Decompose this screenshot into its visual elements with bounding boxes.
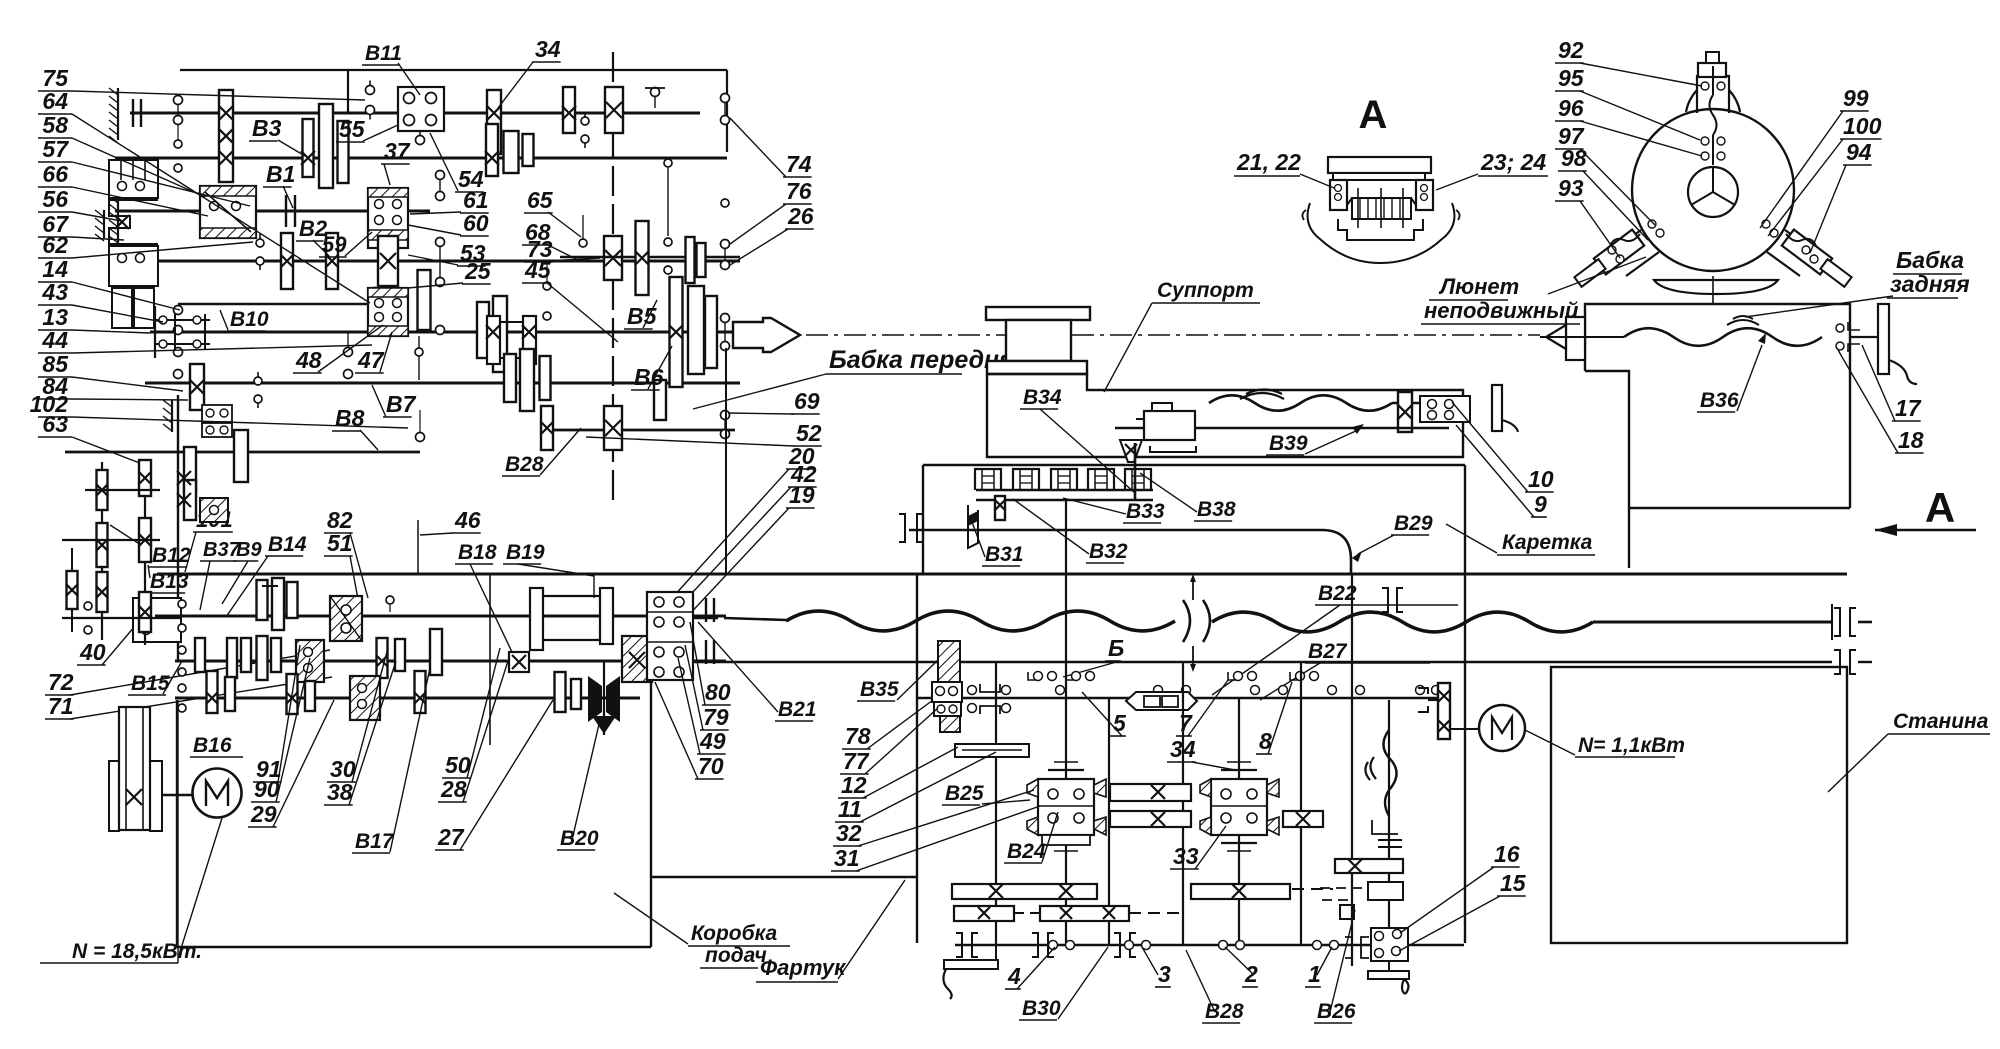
right arm bearings	[1762, 220, 1770, 228]
apron vertical shafts	[995, 662, 997, 945]
B24 base plate	[1042, 835, 1090, 845]
bearing x580 shaft2	[579, 239, 587, 247]
svg-text:70: 70	[698, 753, 724, 779]
hatched block B15	[296, 640, 324, 682]
svg-text:Станина: Станина	[1893, 710, 1989, 733]
gear shaft IV x332	[326, 233, 338, 289]
clamp rack strip	[1347, 198, 1416, 205]
33-34 cap top	[1221, 769, 1257, 771]
rack and pinion bar	[955, 744, 1029, 757]
toolpost stem	[1006, 320, 1071, 361]
svg-text:N= 1,1кВт: N= 1,1кВт	[1578, 734, 1685, 757]
bearing circles B16 left	[178, 684, 186, 692]
clamp left jaw	[1330, 180, 1347, 210]
rod coupling	[705, 640, 707, 664]
steady rest right arm	[1785, 230, 1818, 254]
svg-text:В19: В19	[506, 541, 545, 564]
B29 shaft break	[1383, 730, 1396, 816]
svg-text:37: 37	[384, 138, 411, 164]
leadscrew wavy left	[786, 611, 1175, 631]
B24 cap top	[1048, 769, 1084, 771]
svg-text:В16: В16	[193, 734, 232, 757]
bevel gear cluster dark	[588, 676, 602, 722]
small box x40	[133, 598, 181, 642]
gear on vertical shaft top	[605, 87, 623, 133]
svg-text:19: 19	[789, 482, 815, 508]
bed top line	[157, 573, 1847, 576]
svg-text:В14: В14	[268, 533, 307, 556]
gear shaft IV x287	[281, 233, 293, 289]
svg-text:62: 62	[42, 232, 68, 258]
svg-text:В38: В38	[1197, 498, 1236, 521]
svg-text:В2: В2	[299, 216, 328, 241]
gear x642 on shaft V	[636, 221, 649, 295]
svg-text:подач: подач	[705, 944, 767, 967]
right motor coupling	[1418, 688, 1428, 694]
bevel at B38 hanger	[1120, 440, 1142, 462]
16-15 bearing box	[1371, 928, 1408, 961]
svg-text:32: 32	[836, 820, 862, 846]
svg-text:В13: В13	[150, 570, 189, 593]
feedbox-apron link line	[651, 876, 917, 878]
motor shaft link	[162, 794, 193, 796]
steady rest inner circle	[1688, 167, 1738, 217]
clamp top plate	[1328, 157, 1431, 173]
bearing under clutch B1	[256, 239, 264, 247]
worm gearbox 33-34	[1211, 779, 1267, 835]
svg-text:В39: В39	[1269, 432, 1308, 455]
bottom bearing circles	[1049, 941, 1058, 950]
svg-text:В31: В31	[985, 543, 1024, 566]
bearing pairs on rod row	[1056, 686, 1065, 695]
vertical shaft dashed	[612, 52, 614, 505]
right motor gear	[1438, 683, 1450, 739]
hanger vertical	[1134, 443, 1137, 500]
bearing below clutch box	[416, 136, 425, 145]
svg-text:В36: В36	[1700, 389, 1739, 412]
clutch on shaft III	[285, 195, 287, 227]
leadscrew wavy right	[1212, 612, 1593, 632]
svg-text:33: 33	[1173, 843, 1199, 869]
svg-text:В32: В32	[1089, 540, 1128, 563]
drum on spindle	[487, 316, 500, 364]
svg-text:63: 63	[42, 411, 68, 437]
gear cluster shaft II mid	[303, 119, 314, 177]
spindle center line	[806, 334, 1540, 336]
leadscrew straight right	[1593, 621, 1832, 624]
right arm screw wavy	[1786, 234, 1816, 246]
bearing x545 mid	[543, 282, 551, 290]
svg-text:31: 31	[834, 845, 860, 871]
spindle bearing group	[155, 319, 210, 321]
gear vertical shaft low	[604, 406, 622, 450]
shaft IV B2	[115, 260, 740, 263]
svg-text:неподвижный: неподвижный	[1424, 298, 1579, 323]
svg-text:72: 72	[48, 669, 74, 695]
16-15 block	[1368, 882, 1403, 900]
gear x545 lower shaft	[541, 406, 553, 450]
tailstock box upper	[1585, 304, 1850, 508]
worm block B35	[938, 641, 960, 683]
cross screw gear	[1398, 392, 1412, 432]
svg-text:93: 93	[1558, 175, 1584, 201]
svg-text:94: 94	[1846, 139, 1872, 165]
gear right of block37	[418, 270, 431, 330]
bearing brackets rod right of B35	[968, 686, 977, 695]
gear block shafts I-II	[219, 90, 233, 182]
clamp bowl arc	[1308, 203, 1455, 263]
svg-text:В30: В30	[1022, 997, 1061, 1020]
svg-text:43: 43	[41, 279, 68, 305]
left arm screw wavy	[1610, 234, 1640, 246]
steady rest main circle	[1632, 109, 1794, 271]
svg-text:В12: В12	[152, 544, 191, 567]
tailstock quill	[1566, 317, 1585, 360]
bearing B14 x390	[386, 596, 394, 604]
bearing shaft II left	[371, 292, 380, 301]
svg-text:29: 29	[250, 801, 277, 827]
svg-text:В33: В33	[1126, 500, 1165, 523]
clamp bar	[1333, 173, 1425, 180]
bottom couplings	[956, 933, 962, 957]
right wall bearings	[721, 94, 730, 103]
sliding block 37 upper	[368, 188, 408, 248]
svg-text:В26: В26	[1317, 1000, 1356, 1023]
carriage right edge	[1464, 465, 1466, 943]
hanger under block37	[418, 336, 420, 380]
svg-text:50: 50	[445, 752, 471, 778]
svg-text:10: 10	[1528, 466, 1554, 492]
gears on vertical shaft mid	[604, 236, 622, 280]
svg-text:26: 26	[787, 203, 814, 229]
carriage top edge	[923, 464, 1465, 466]
gear B16 x545	[555, 672, 566, 712]
leader 46 vertical	[417, 520, 419, 574]
tailstock nut arcs	[1727, 316, 1759, 325]
B39 under-table	[1150, 446, 1196, 452]
worm bar right of 33	[1283, 811, 1323, 827]
left small column	[71, 548, 73, 632]
svg-text:100: 100	[1843, 113, 1882, 139]
svg-text:56: 56	[42, 186, 68, 212]
svg-text:18: 18	[1898, 427, 1924, 453]
svg-text:34: 34	[535, 36, 561, 62]
worm gearbox B24	[1038, 779, 1094, 835]
gear shaft I mid	[487, 90, 501, 154]
racks bottom right	[1191, 884, 1290, 899]
shaft B7	[145, 382, 740, 385]
gears B15 mid	[377, 638, 388, 678]
svg-text:17: 17	[1895, 395, 1922, 421]
gear pair under B1 block	[477, 302, 489, 358]
bearings col x440	[436, 171, 445, 180]
svg-text:60: 60	[463, 210, 489, 236]
svg-text:92: 92	[1558, 37, 1584, 63]
svg-text:69: 69	[794, 388, 820, 414]
svg-text:Коробка: Коробка	[691, 922, 777, 945]
bearing right of gear	[581, 117, 589, 125]
svg-text:В37: В37	[203, 539, 241, 561]
bearing pairs top line row	[1028, 672, 1038, 680]
leadscrew break symbol	[1183, 600, 1210, 642]
support outline	[987, 374, 1463, 457]
left brake lower plates	[112, 288, 132, 328]
svg-text:23; 24: 23; 24	[1480, 149, 1546, 175]
svg-text:90: 90	[254, 776, 280, 802]
bearing wall shaft I	[132, 99, 134, 127]
bearings x420 under	[416, 433, 425, 442]
svg-text:58: 58	[42, 112, 68, 138]
svg-text:45: 45	[524, 257, 552, 283]
svg-text:В28: В28	[505, 453, 544, 476]
bearing hanger x668	[664, 159, 672, 167]
hatched gear B14	[330, 596, 362, 641]
clamp pins	[1357, 188, 1359, 228]
motor M main	[193, 769, 242, 818]
motor M small	[1479, 705, 1525, 751]
cross shaft y490	[85, 489, 160, 491]
B31 pennant	[968, 505, 978, 548]
svg-text:96: 96	[1558, 95, 1584, 121]
svg-text:98: 98	[1561, 145, 1587, 171]
steady rest left arm	[1608, 230, 1641, 254]
svg-text:64: 64	[42, 88, 68, 114]
svg-text:77: 77	[843, 748, 870, 774]
gears B14 shaft	[257, 580, 268, 620]
elastic coupling drum	[530, 588, 543, 650]
svg-text:57: 57	[42, 136, 69, 162]
bearing x178 column	[174, 96, 183, 105]
svg-text:В9: В9	[236, 539, 262, 561]
svg-text:40: 40	[79, 639, 106, 665]
gear B7 right	[654, 380, 666, 420]
vertical shaft left x178	[177, 395, 179, 660]
svg-text:4: 4	[1007, 963, 1021, 989]
steady rest top arm	[1686, 76, 1740, 113]
shaft B14	[155, 615, 726, 618]
thin vertical x490	[489, 574, 491, 745]
bed box	[1551, 667, 1847, 943]
svg-text:46: 46	[454, 507, 481, 533]
B39 screw line	[1115, 427, 1449, 429]
feedbox right edge	[650, 677, 652, 947]
svg-text:27: 27	[437, 824, 465, 850]
svg-text:В11: В11	[365, 42, 402, 65]
steady rest bottom support	[1654, 280, 1778, 294]
wall hatch left top	[117, 88, 119, 140]
big spindle gears	[670, 277, 683, 387]
hatched gear right B15	[622, 636, 652, 682]
svg-text:Бабка: Бабка	[1896, 247, 1964, 273]
svg-text:Суппорт: Суппорт	[1157, 279, 1254, 302]
B24 cap bottom	[1048, 842, 1084, 844]
svg-text:Люнет: Люнет	[1438, 274, 1519, 299]
svg-text:2: 2	[1244, 961, 1258, 987]
hatched block B16	[350, 676, 380, 720]
spindle shaft	[150, 331, 733, 334]
headstock top outline	[180, 69, 727, 71]
tailstock handwheel	[1878, 304, 1889, 374]
carriage rail bar	[976, 489, 1153, 491]
vertical line x726 mid	[725, 348, 727, 574]
shaft B8	[65, 451, 420, 454]
bearings column x348	[344, 348, 353, 357]
left wall hatch mid	[103, 210, 105, 238]
rail trucks	[975, 469, 1001, 490]
svg-text:8: 8	[1259, 728, 1272, 754]
apron rod lower	[917, 697, 1440, 700]
right handle	[1388, 961, 1390, 971]
svg-text:76: 76	[786, 178, 812, 204]
small hatched block upper feedbox	[200, 498, 228, 522]
bed couplings right	[1834, 608, 1840, 636]
svg-text:9: 9	[1534, 491, 1547, 517]
bearing x655 top	[651, 88, 660, 97]
left brake assembly	[109, 160, 158, 198]
svg-text:66: 66	[42, 161, 68, 187]
motor pulley block	[109, 761, 119, 831]
dead center	[733, 318, 800, 352]
svg-text:В21: В21	[778, 698, 817, 721]
svg-text:71: 71	[48, 693, 74, 719]
gears B15 shaft	[195, 638, 205, 672]
svg-text:5: 5	[1113, 710, 1127, 736]
tailstock body	[1585, 371, 1850, 508]
shaft B16	[175, 697, 640, 700]
carriage left edge	[922, 465, 924, 574]
svg-text:80: 80	[705, 679, 731, 705]
top arm screw bearings	[1701, 82, 1709, 90]
truck small gears	[995, 496, 1005, 520]
top arm screw	[1712, 66, 1714, 95]
svg-text:А: А	[1359, 93, 1388, 137]
svg-text:Б: Б	[1108, 635, 1124, 661]
carriage inner line B29	[909, 530, 1351, 574]
svg-text:51: 51	[327, 530, 353, 556]
svg-text:Каретка: Каретка	[1502, 531, 1593, 554]
svg-text:38: 38	[327, 779, 353, 805]
aux line B10	[178, 303, 378, 305]
svg-text:49: 49	[699, 728, 726, 754]
svg-text:В1: В1	[266, 161, 295, 187]
apron left edge	[916, 574, 918, 943]
svg-text:В18: В18	[458, 541, 497, 564]
tailstock screw bearings	[1836, 324, 1844, 332]
worm shaft bars right of B24	[1110, 784, 1191, 801]
svg-text:В25: В25	[945, 782, 984, 805]
clamp right jaw	[1416, 180, 1433, 210]
svg-text:В10: В10	[230, 308, 269, 331]
svg-text:78: 78	[845, 723, 871, 749]
16-15 dashes	[1320, 887, 1364, 889]
sliding block 37 lower	[368, 288, 408, 336]
bearing circles right of B15	[658, 644, 666, 652]
bearing on shaft I	[366, 86, 375, 95]
cross screw nut arcs	[1240, 390, 1284, 400]
svg-text:В24: В24	[1007, 840, 1046, 863]
gears B16 shaft	[207, 671, 218, 713]
B13 vertical gear column	[144, 462, 146, 645]
tailstock center line	[1540, 336, 1624, 338]
gear 37 mid	[378, 236, 398, 286]
svg-text:99: 99	[1843, 85, 1869, 111]
clutch box under B7	[202, 405, 232, 422]
couplings right of carriage	[1382, 588, 1388, 612]
clutch box B11	[398, 87, 444, 131]
shaft B15	[175, 660, 726, 663]
gear on x178	[184, 447, 196, 493]
svg-text:В29: В29	[1394, 512, 1433, 535]
svg-text:В27: В27	[1308, 640, 1348, 663]
svg-text:15: 15	[1500, 870, 1527, 896]
cross shaft y618	[62, 617, 182, 619]
shaft right lower	[540, 429, 735, 432]
feed rod line	[693, 661, 1832, 664]
svg-text:28: 28	[440, 776, 467, 802]
svg-text:В34: В34	[1023, 386, 1062, 409]
clutch block B1 hatched	[200, 186, 256, 238]
gear on B7 left	[190, 364, 204, 410]
hatch wall x170	[171, 400, 173, 432]
16-15 gear bar	[1335, 859, 1403, 873]
svg-text:Фартук: Фартук	[760, 955, 847, 980]
svg-text:95: 95	[1558, 65, 1585, 91]
svg-text:В35: В35	[860, 678, 899, 701]
cross slide screw wavy	[1209, 395, 1392, 410]
svg-text:21, 22: 21, 22	[1236, 149, 1301, 175]
svg-text:12: 12	[841, 772, 867, 798]
shaft V stub	[560, 256, 740, 259]
bearing pair x258 low	[254, 377, 262, 385]
33-34 cap bottom	[1221, 842, 1257, 844]
svg-text:3: 3	[1158, 961, 1171, 987]
feedbox bottom	[177, 946, 651, 948]
apron bottom shaft	[955, 944, 1464, 946]
carriage left coupling	[899, 514, 905, 542]
svg-text:В20: В20	[560, 827, 599, 850]
svg-text:1: 1	[1308, 961, 1321, 987]
leadscrew start segment	[693, 617, 718, 620]
svg-text:48: 48	[295, 347, 322, 373]
bearing circles B15 left	[178, 646, 186, 654]
gear shaft B7 cluster	[504, 354, 516, 402]
left arm bearings	[1648, 220, 1656, 228]
bearing circles B14 left	[178, 600, 186, 608]
racks bottom left	[952, 884, 1097, 899]
shaft II	[115, 157, 727, 160]
B12 vertical gear column	[101, 462, 103, 640]
gear on B8	[234, 430, 248, 482]
feedbox left edge	[176, 700, 178, 947]
bearing x88 y618	[84, 602, 92, 610]
svg-text:В17: В17	[355, 830, 395, 853]
svg-text:В8: В8	[335, 405, 365, 431]
clamp lower body	[1338, 219, 1423, 240]
16-15 bracket upper	[1372, 820, 1398, 834]
jaw clutch box B15	[509, 652, 529, 672]
worm wheel lens	[1126, 692, 1197, 710]
leadscrew coupling	[705, 598, 707, 622]
gear pair x690 shaft V	[686, 237, 695, 283]
block 80 bearing box	[647, 592, 693, 680]
shaft III B1	[115, 210, 430, 213]
left handle	[995, 945, 997, 960]
B39 block	[1144, 411, 1195, 440]
svg-text:11: 11	[838, 796, 862, 822]
svg-text:34: 34	[1170, 736, 1196, 762]
cross shaft y540	[62, 539, 160, 541]
gears B16 mid	[287, 674, 298, 714]
